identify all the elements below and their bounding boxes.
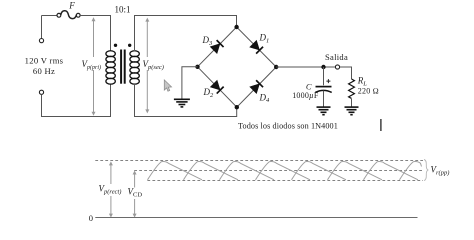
diode D3	[210, 40, 223, 53]
wire secondary bottom to bridge	[135, 84, 237, 117]
svg-text:Todos los diodos son 1N4001: Todos los diodos son 1N4001	[238, 121, 338, 130]
ground capacitor	[317, 107, 331, 115]
label VCD	[127, 187, 145, 200]
diode D1	[250, 40, 263, 53]
wire primary left vertical to top terminal	[41, 16, 43, 39]
phase dot primary	[114, 44, 117, 47]
diode D2	[210, 80, 223, 93]
node output junction	[321, 65, 325, 69]
transformer T secondary winding	[130, 51, 139, 84]
wire output right node to load	[276, 67, 351, 79]
svg-text:120 V rms: 120 V rms	[25, 56, 64, 66]
brace Vr(pp)	[424, 160, 428, 181]
label + polarity	[326, 79, 330, 83]
svg-text:D1: D1	[259, 33, 270, 45]
svg-text:1000µF: 1000µF	[292, 91, 319, 100]
node bottom	[235, 105, 239, 109]
ground resistor	[345, 107, 359, 115]
dashed line peak level	[95, 160, 423, 162]
bridge arm bottom-right wire	[237, 67, 276, 107]
wire fuse to transformer	[80, 16, 110, 52]
svg-text:Salida: Salida	[325, 52, 348, 62]
label Vp(sec)	[142, 57, 165, 71]
svg-text:D4: D4	[259, 92, 271, 104]
arrow Vp(sec)	[145, 18, 149, 114]
mouse cursor	[164, 80, 171, 91]
ground bridge	[174, 99, 190, 107]
svg-text:RL: RL	[357, 76, 368, 88]
source terminal bottom	[39, 90, 43, 94]
wire resistor bottom	[351, 99, 353, 107]
dashed line VCD level	[134, 170, 423, 172]
ripple waveform	[148, 162, 422, 180]
phase dot secondary	[128, 44, 131, 47]
terminal Salida	[335, 65, 339, 69]
axis zero line	[95, 217, 417, 219]
wire capacitor top	[323, 67, 325, 85]
svg-text:D3: D3	[202, 35, 214, 47]
svg-text:10:1: 10:1	[114, 5, 130, 15]
wire capacitor bottom	[323, 91, 325, 107]
wire bridge left node to ground	[182, 67, 198, 99]
wire primary bottom	[42, 84, 111, 117]
bridge arm bottom-left wire	[198, 67, 237, 107]
transformer T primary winding	[106, 51, 115, 84]
text cursor bar	[380, 119, 382, 131]
svg-text:60 Hz: 60 Hz	[33, 66, 55, 76]
svg-text:Vr(pp): Vr(pp)	[431, 165, 450, 177]
svg-text:C: C	[306, 81, 312, 91]
svg-text:0: 0	[89, 213, 93, 223]
node top	[234, 25, 238, 29]
fuse F	[57, 11, 80, 19]
label Vp(rect)	[98, 184, 125, 197]
transformer core	[121, 50, 125, 84]
bridge arm top-right wire	[237, 27, 277, 67]
wire secondary top to bridge	[135, 16, 237, 52]
arrow VCD	[133, 171, 137, 218]
svg-text:F: F	[68, 1, 75, 11]
source terminal top	[39, 39, 43, 43]
node right	[274, 65, 278, 69]
svg-text:D2: D2	[203, 87, 215, 99]
label Vp(pri)	[80, 57, 103, 71]
svg-text:220 Ω: 220 Ω	[358, 87, 379, 96]
arrow Vp(pri)	[92, 17, 96, 115]
wire primary top left	[42, 15, 58, 17]
diode D4	[250, 80, 263, 93]
arrow Vp(rect)	[109, 161, 113, 217]
bridge arm top-left wire	[198, 27, 237, 67]
node left	[195, 65, 199, 69]
capacitor C plates	[315, 87, 331, 93]
dashed line trough level	[147, 180, 423, 182]
resistor RL	[349, 79, 355, 98]
